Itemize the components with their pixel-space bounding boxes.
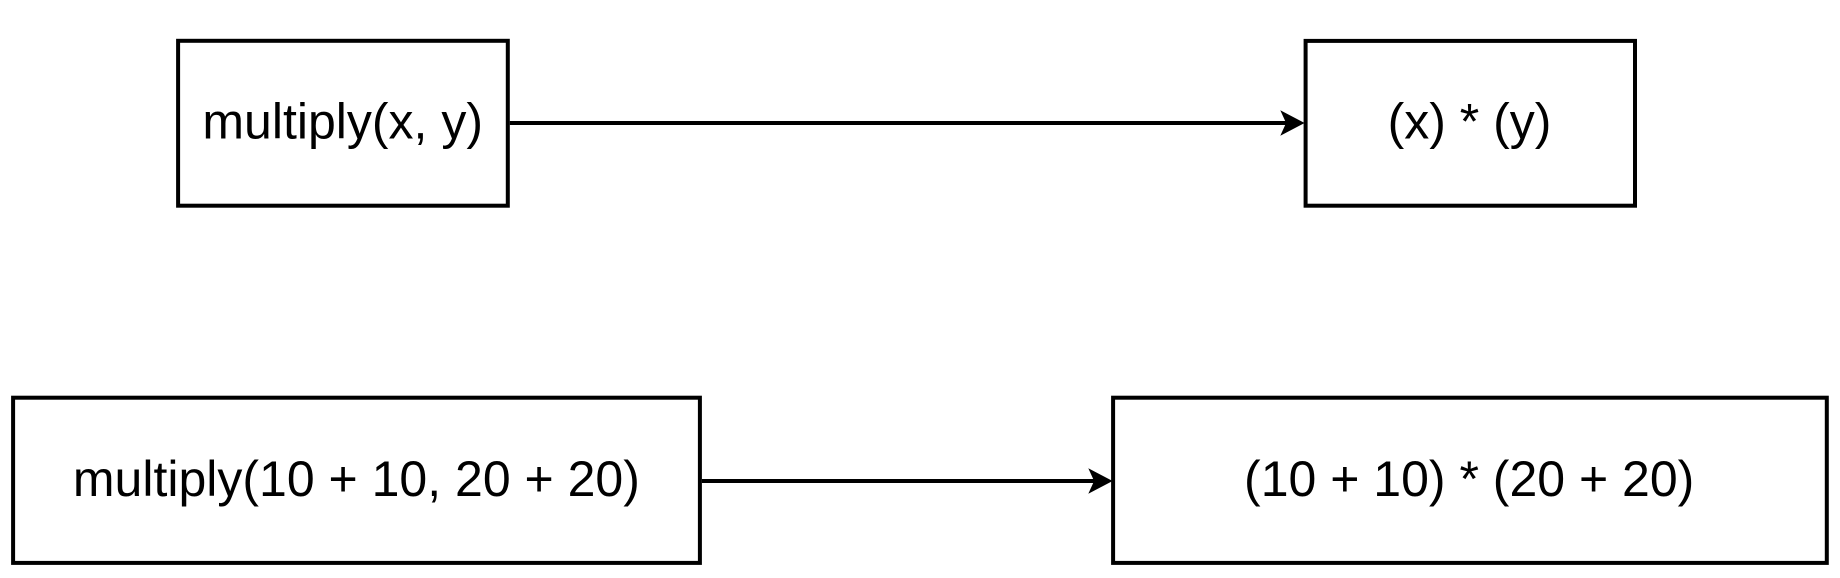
arrow 2: wire xyxy=(702,468,1113,493)
arrow 1: wire xyxy=(510,110,1305,135)
node box: (x) * (y) xyxy=(1306,41,1635,206)
svg-text:multiply(10 + 10, 20 + 20): multiply(10 + 10, 20 + 20) xyxy=(73,451,640,507)
svg-text:multiply(x, y): multiply(x, y) xyxy=(202,94,483,150)
node box: multiply(x, y) xyxy=(178,41,508,206)
svg-text:(x) * (y): (x) * (y) xyxy=(1388,94,1552,150)
node box: (10 + 10) * (20 + 20) xyxy=(1113,398,1827,563)
svg-text:(10 + 10) * (20 + 20): (10 + 10) * (20 + 20) xyxy=(1244,451,1694,507)
node box: multiply(10 + 10, 20 + 20) xyxy=(13,398,700,563)
